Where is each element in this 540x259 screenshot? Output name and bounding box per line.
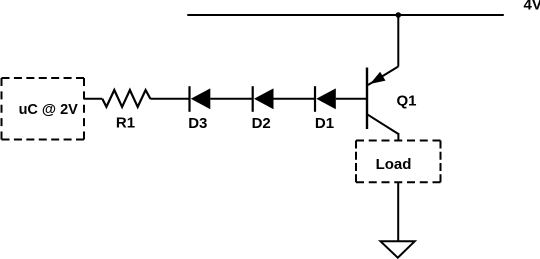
- power rail 4V: [187, 14, 504, 16]
- svg-text:D1: D1: [315, 115, 334, 132]
- ground: [381, 241, 415, 257]
- wire R1 to D3: [150, 98, 190, 100]
- wire D1 to Q1 base: [336, 98, 367, 100]
- wire emitter vertical: [397, 15, 399, 67]
- wire uC to R1: [84, 98, 102, 100]
- svg-text:Load: Load: [376, 156, 412, 173]
- junction dot: [396, 12, 402, 18]
- resistor R1: [102, 90, 150, 107]
- svg-text:uC @ 2V: uC @ 2V: [19, 102, 79, 118]
- wire Load to ground: [397, 182, 399, 241]
- uC box (dashed): [2, 78, 85, 140]
- svg-text:D2: D2: [252, 115, 271, 132]
- wire D2 to D1: [274, 98, 316, 100]
- diode D3: [190, 86, 211, 112]
- svg-text:D3: D3: [188, 115, 207, 132]
- svg-text:R1: R1: [116, 115, 135, 132]
- transistor Q1: [367, 67, 398, 141]
- Load box (dashed): [356, 141, 441, 183]
- diode D2: [253, 86, 274, 112]
- wire D3 to D2: [210, 98, 253, 100]
- svg-text:4V: 4V: [524, 0, 540, 14]
- diode D1: [315, 86, 336, 112]
- svg-text:Q1: Q1: [396, 92, 416, 109]
